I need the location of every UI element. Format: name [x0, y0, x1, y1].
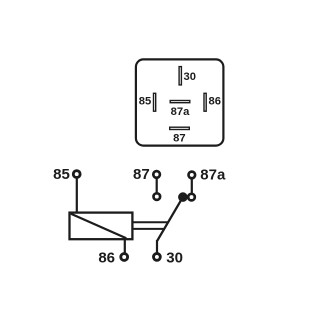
pin slot 30: [179, 67, 181, 85]
wire 87a: [191, 179, 193, 193]
relay socket outline: [136, 59, 224, 145]
contact 87a (open): [188, 194, 195, 201]
switch arm 30 to 87a: [157, 197, 183, 241]
wire 30: [156, 240, 158, 253]
svg-text:30: 30: [166, 249, 183, 266]
actuator link lower: [133, 228, 164, 230]
pin slot 87a: [170, 101, 190, 103]
svg-text:85: 85: [53, 166, 70, 183]
svg-text:30: 30: [184, 71, 196, 83]
svg-text:86: 86: [98, 249, 115, 266]
moving contact dot: [178, 192, 188, 202]
terminal 87: [153, 171, 160, 178]
coil diagonal: [71, 214, 126, 238]
svg-text:87a: 87a: [171, 106, 190, 118]
svg-text:86: 86: [209, 95, 221, 107]
terminal 86: [121, 254, 128, 261]
pin slot 87: [170, 127, 190, 129]
contact 87 (open): [154, 193, 161, 200]
pin slot 85: [154, 93, 156, 111]
svg-text:87: 87: [173, 132, 185, 144]
svg-text:85: 85: [139, 95, 151, 107]
svg-text:87: 87: [133, 166, 150, 183]
pin slot 86: [204, 93, 206, 111]
terminal 87a: [189, 172, 196, 179]
relay coil K1: [70, 213, 133, 240]
terminal 85: [73, 171, 80, 178]
wire 87: [156, 179, 158, 193]
svg-text:87a: 87a: [200, 166, 226, 183]
wire 85 to coil: [76, 179, 78, 213]
wire coil to 86: [124, 239, 126, 253]
terminal 30: [154, 254, 161, 261]
actuator link upper: [133, 221, 168, 223]
